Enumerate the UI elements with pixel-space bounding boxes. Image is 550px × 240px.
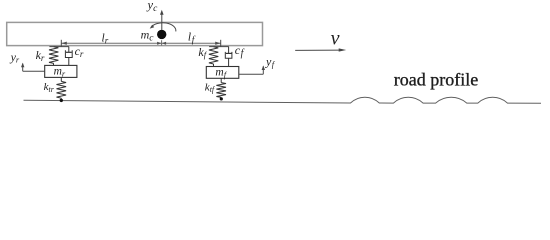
damper c_f (228, 47, 230, 54)
svg-text:mc: mc (141, 28, 155, 44)
y_r indicator (23, 70, 45, 72)
left suspension top bar (49, 46, 69, 48)
svg-text:yc: yc (146, 0, 159, 14)
svg-text:ktr: ktr (44, 81, 55, 94)
y_f indicator (239, 73, 263, 75)
svg-text:v: v (331, 28, 340, 50)
svg-text:ktf: ktf (205, 82, 216, 95)
spring k_f (209, 47, 218, 64)
tire spring k_tr (60, 77, 62, 81)
left attachment tick/stub (60, 40, 62, 47)
contact dot left (60, 99, 63, 102)
dimension line l_r (61, 42, 161, 44)
svg-text:yr: yr (10, 50, 20, 65)
velocity arrow v (295, 49, 341, 51)
center of mass m_c (157, 30, 166, 39)
car body rectangle (sprung mass) (7, 22, 263, 45)
contact dot right (220, 97, 223, 100)
svg-text:kr: kr (36, 48, 45, 63)
spring k_r (49, 47, 58, 64)
y_c displacement arrow (161, 12, 163, 30)
unsprung mass m_f box (206, 67, 239, 79)
pitch rotation arc (151, 23, 176, 32)
svg-text:kf: kf (198, 45, 207, 60)
svg-text:mf: mf (215, 66, 227, 79)
damper c_r (68, 47, 70, 53)
tire spring k_tf (220, 78, 222, 82)
svg-text:lr: lr (102, 33, 109, 46)
unsprung mass m_r box (45, 65, 77, 77)
dimension line l_f (162, 42, 221, 44)
road profile line with bumps (24, 97, 542, 103)
svg-text:road profile: road profile (394, 70, 478, 90)
right attachment tick/stub (220, 40, 222, 47)
svg-text:mr: mr (54, 65, 66, 78)
right suspension top bar (209, 46, 229, 48)
tick center (161, 40, 163, 45)
svg-text:yf: yf (265, 55, 276, 70)
